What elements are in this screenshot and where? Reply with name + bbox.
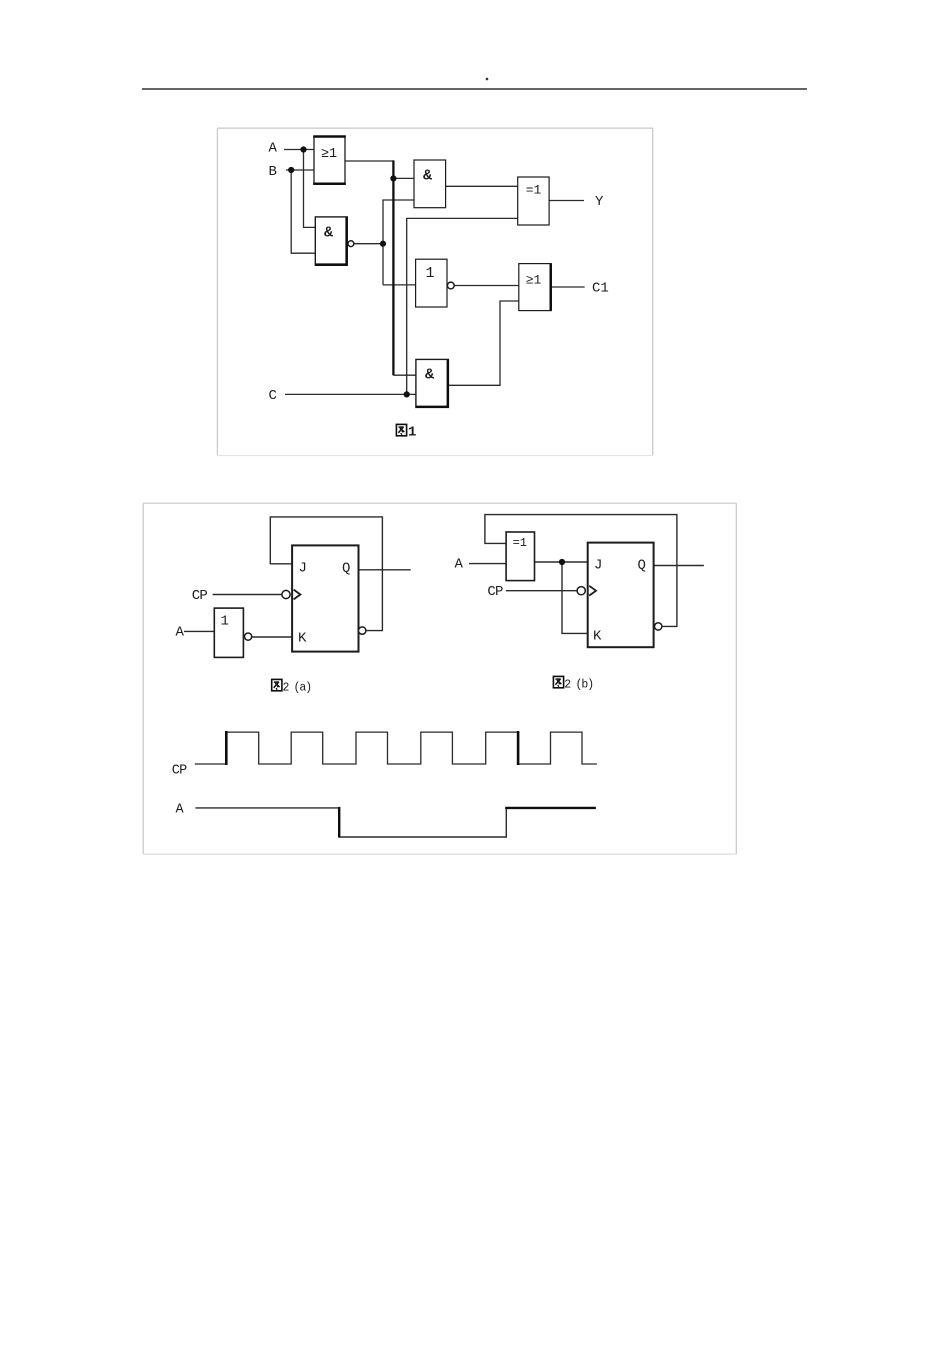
svg-text:Q: Q xyxy=(638,558,646,574)
svg-text:A: A xyxy=(269,141,278,157)
svg-text:Q: Q xyxy=(342,561,350,577)
svg-text:2: 2 xyxy=(283,682,290,695)
svg-text:B: B xyxy=(269,164,277,180)
svg-text:A: A xyxy=(455,557,464,573)
svg-text:CP: CP xyxy=(192,588,208,604)
svg-text:1: 1 xyxy=(221,614,229,630)
svg-text:Y: Y xyxy=(595,194,604,210)
svg-text:=1: =1 xyxy=(526,183,542,198)
svg-text:&: & xyxy=(324,225,333,242)
svg-text:(b): (b) xyxy=(576,679,594,692)
svg-text:J: J xyxy=(299,561,307,577)
svg-text:≥1: ≥1 xyxy=(321,147,337,162)
svg-text:C: C xyxy=(269,388,277,404)
svg-text:1: 1 xyxy=(425,265,434,282)
svg-text:K: K xyxy=(593,629,602,645)
svg-text:K: K xyxy=(298,631,307,647)
svg-text:=1: =1 xyxy=(513,536,527,550)
svg-text:2: 2 xyxy=(564,679,571,692)
svg-text:&: & xyxy=(423,168,432,185)
svg-text:CP: CP xyxy=(487,584,503,600)
svg-text:J: J xyxy=(594,558,602,574)
svg-text:(a): (a) xyxy=(294,682,312,695)
svg-text:A: A xyxy=(176,625,185,641)
svg-text:≥1: ≥1 xyxy=(526,273,542,288)
svg-text:A: A xyxy=(176,803,185,818)
svg-text:CP: CP xyxy=(172,764,187,779)
svg-text:C1: C1 xyxy=(592,281,609,297)
svg-text:&: & xyxy=(425,367,434,384)
svg-text:1: 1 xyxy=(408,425,416,441)
